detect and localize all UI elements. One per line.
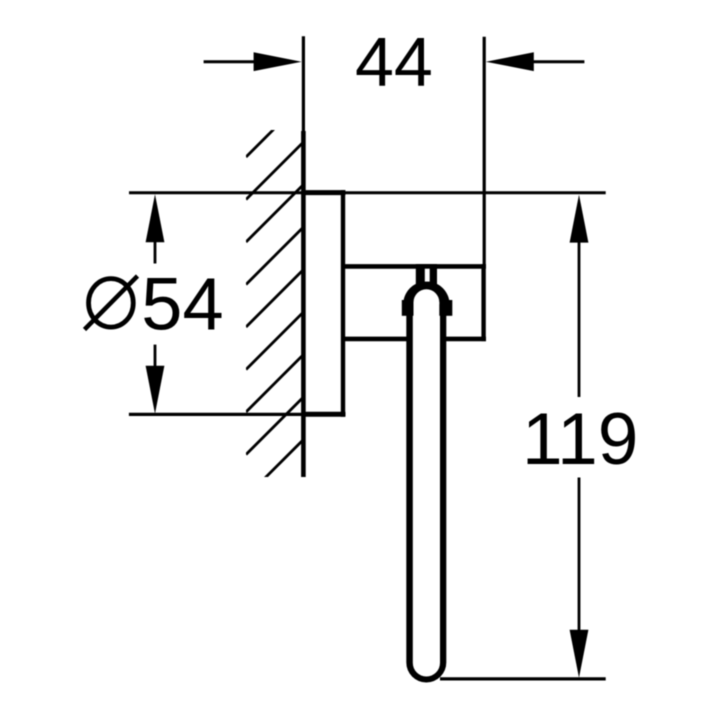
svg-text:119: 119 xyxy=(522,399,638,480)
svg-text:54: 54 xyxy=(141,263,223,346)
svg-text:44: 44 xyxy=(355,23,433,101)
